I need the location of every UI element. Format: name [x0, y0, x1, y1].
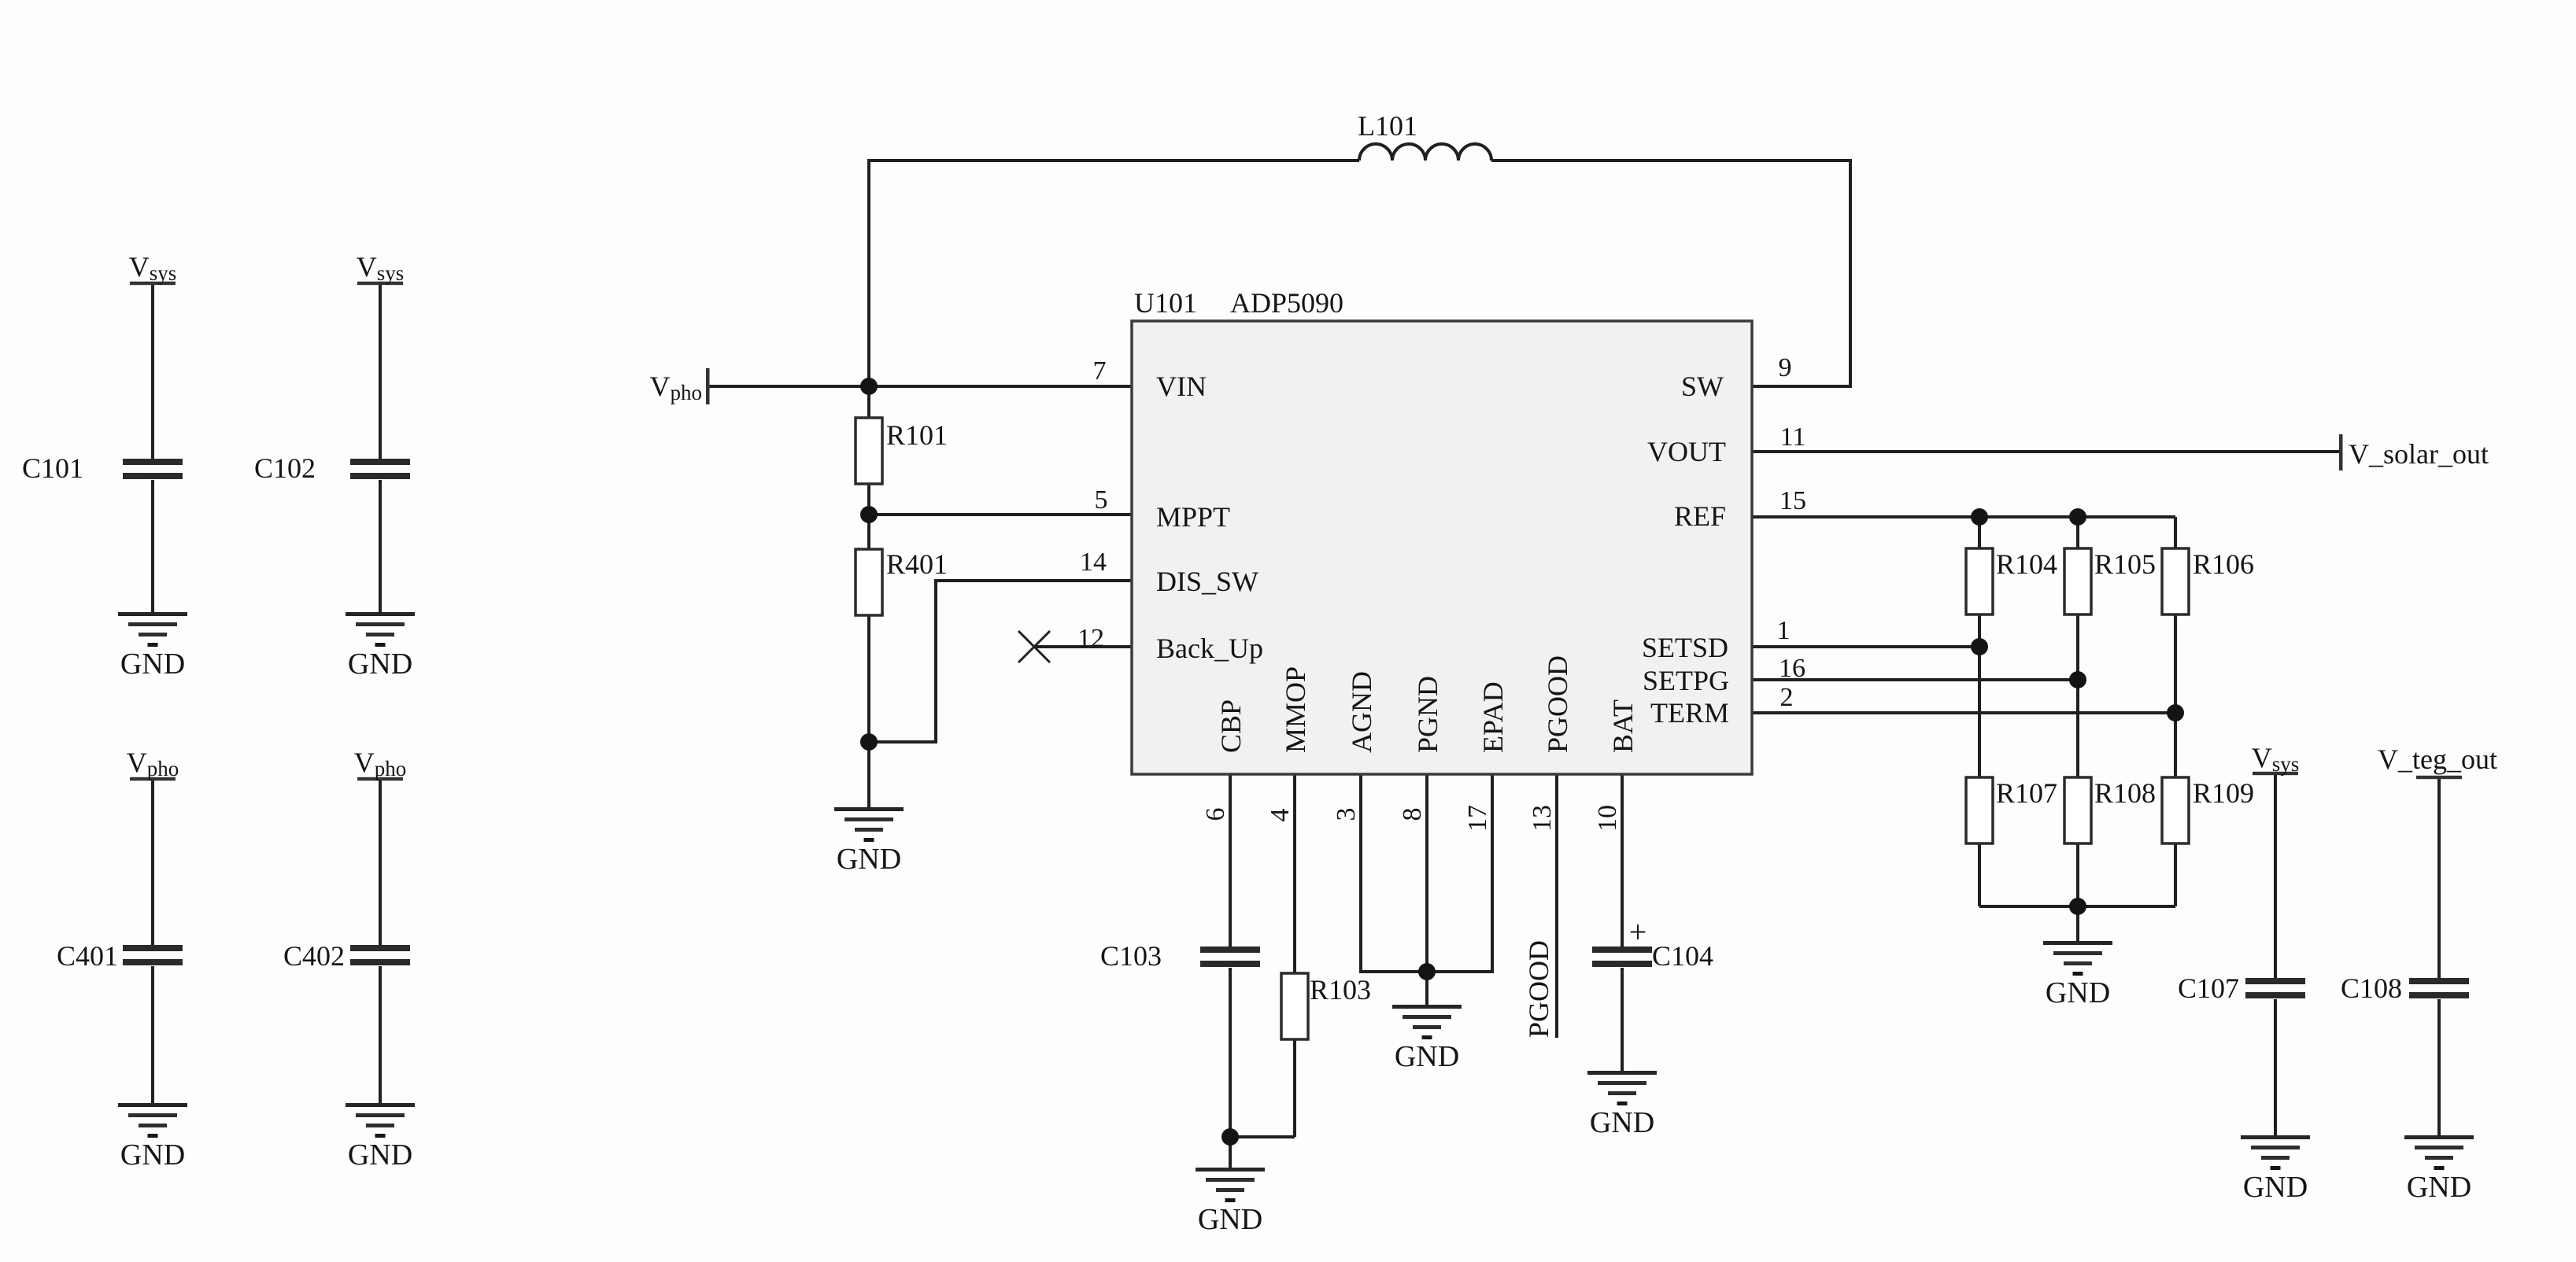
svg-text:R108: R108 [2094, 777, 2156, 809]
svg-text:C102: C102 [254, 452, 316, 484]
svg-text:4: 4 [1266, 809, 1295, 822]
svg-text:C108: C108 [2341, 972, 2402, 1004]
svg-text:1: 1 [1777, 616, 1791, 645]
svg-text:C402: C402 [283, 940, 345, 972]
svg-text:SW: SW [1681, 371, 1724, 402]
svg-text:6: 6 [1201, 808, 1230, 821]
svg-text:R107: R107 [1996, 777, 2057, 809]
svg-text:SETSD: SETSD [1642, 632, 1728, 663]
svg-text:MMOP: MMOP [1280, 666, 1311, 753]
svg-text:16: 16 [1779, 654, 1805, 683]
svg-text:V_solar_out: V_solar_out [2349, 438, 2489, 470]
svg-text:AGND: AGND [1346, 671, 1377, 753]
svg-text:ADP5090: ADP5090 [1230, 287, 1343, 319]
svg-text:R105: R105 [2094, 548, 2156, 580]
svg-text:C101: C101 [22, 452, 83, 484]
svg-text:17: 17 [1463, 805, 1492, 832]
svg-text:R106: R106 [2193, 548, 2254, 580]
svg-text:EPAD: EPAD [1477, 681, 1509, 753]
svg-text:DIS_SW: DIS_SW [1156, 566, 1258, 597]
svg-text:R109: R109 [2193, 777, 2254, 809]
svg-text:13: 13 [1528, 805, 1557, 832]
svg-text:8: 8 [1398, 808, 1427, 821]
svg-text:R103: R103 [1310, 974, 1371, 1006]
svg-text:2: 2 [1780, 683, 1794, 712]
svg-text:C104: C104 [1652, 940, 1713, 972]
svg-text:+: + [1629, 914, 1647, 950]
svg-text:11: 11 [1780, 423, 1806, 452]
svg-text:PGOOD: PGOOD [1542, 655, 1573, 753]
svg-text:C107: C107 [2178, 972, 2239, 1004]
svg-text:7: 7 [1093, 356, 1107, 386]
svg-text:BAT: BAT [1607, 699, 1639, 753]
svg-text:14: 14 [1080, 548, 1107, 577]
svg-text:Back_Up: Back_Up [1156, 633, 1263, 664]
svg-text:5: 5 [1095, 485, 1108, 515]
svg-text:REF: REF [1674, 500, 1726, 532]
svg-text:SETPG: SETPG [1643, 665, 1729, 696]
svg-text:TERM: TERM [1650, 697, 1729, 729]
svg-text:VIN: VIN [1156, 371, 1207, 402]
svg-text:V_teg_out: V_teg_out [2378, 744, 2497, 775]
svg-text:3: 3 [1332, 808, 1361, 821]
svg-text:9: 9 [1779, 353, 1792, 382]
svg-text:C401: C401 [57, 940, 118, 972]
svg-text:C103: C103 [1100, 940, 1162, 972]
svg-text:R104: R104 [1996, 548, 2057, 580]
svg-text:L101: L101 [1358, 110, 1417, 142]
svg-text:PGND: PGND [1412, 676, 1443, 753]
svg-text:VOUT: VOUT [1647, 436, 1726, 467]
svg-text:10: 10 [1593, 805, 1622, 832]
svg-text:U101: U101 [1134, 287, 1197, 319]
svg-text:15: 15 [1780, 486, 1806, 515]
svg-text:12: 12 [1077, 624, 1104, 653]
svg-text:CBP: CBP [1215, 699, 1247, 753]
svg-text:R401: R401 [886, 548, 948, 580]
svg-text:PGOOD: PGOOD [1523, 940, 1554, 1038]
svg-text:MPPT: MPPT [1156, 501, 1230, 533]
svg-text:R101: R101 [886, 419, 948, 451]
